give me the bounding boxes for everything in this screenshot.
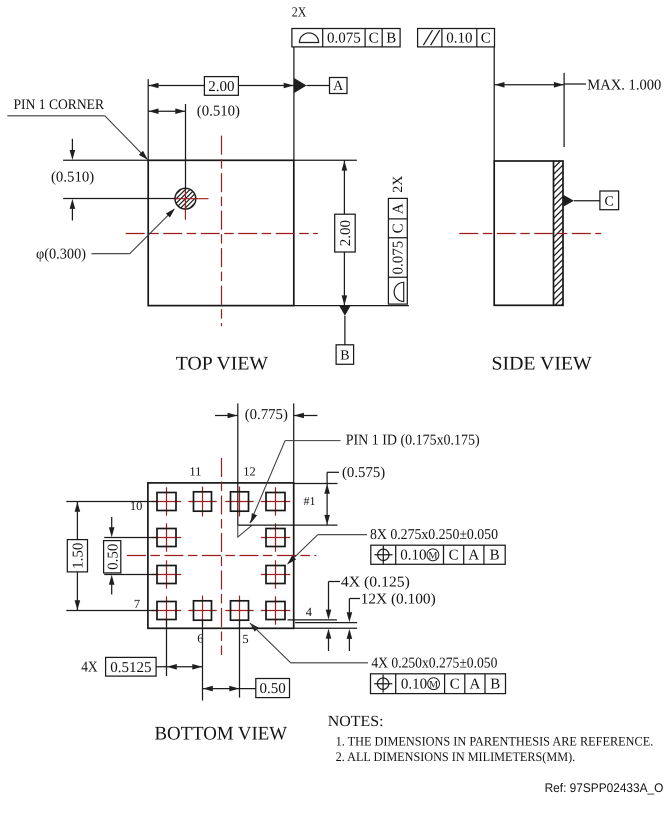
4X bottom pad size callout	[250, 623, 259, 632]
svg-text:11: 11	[189, 465, 201, 479]
svg-text:C: C	[449, 548, 459, 564]
datum B symbol	[339, 306, 350, 316]
svg-text:(0.775): (0.775)	[245, 407, 288, 423]
svg-text:0.50: 0.50	[105, 544, 121, 570]
svg-text:4X (0.125): 4X (0.125)	[341, 574, 410, 590]
svg-text:#1: #1	[304, 494, 316, 508]
svg-text:0.075: 0.075	[327, 31, 361, 47]
0.50 bottom dimension	[239, 620, 241, 697]
side view hatched strip	[551, 143, 566, 322]
position tolerance frame for 4X pads	[371, 674, 506, 694]
top view vertical centerline	[221, 136, 223, 327]
svg-text:0.075: 0.075	[391, 241, 407, 275]
pad at (202,610)	[188, 610, 216, 612]
svg-text:Ref: 97SPP02433A_O: Ref: 97SPP02433A_O	[545, 781, 664, 795]
extension line frame to package corner	[293, 47, 295, 160]
svg-text:B: B	[490, 677, 500, 693]
pin 1 marker hatched circle	[149, 186, 221, 212]
svg-text:0.50: 0.50	[260, 681, 286, 697]
position tolerance frame for 8X pads	[371, 545, 505, 564]
svg-text:NOTES:: NOTES:	[328, 713, 384, 730]
vertical 2.00 dimension	[294, 159, 357, 161]
pad at (166,502)	[152, 501, 181, 503]
PIN 1 CORNER leader	[7, 115, 105, 117]
extension line frame to side view corner	[493, 47, 495, 161]
svg-text:(0.575): (0.575)	[342, 465, 385, 481]
svg-text:B: B	[386, 31, 396, 47]
svg-text:C: C	[481, 31, 491, 47]
pad at (240,610)	[225, 610, 253, 612]
pad at (202,502)	[188, 501, 216, 503]
diameter 0.300 leader	[92, 253, 130, 255]
parallelism feature control frame	[418, 29, 495, 47]
datum C symbol	[563, 195, 574, 207]
pin 1 ID triangle	[238, 525, 252, 537]
bottom view vertical centerline	[221, 458, 223, 655]
top view horizontal centerline	[126, 233, 318, 235]
horizontal 2.00 dimension	[147, 79, 149, 160]
svg-text:2.00: 2.00	[208, 79, 234, 95]
svg-text:M: M	[429, 680, 438, 691]
svg-text:B: B	[340, 349, 349, 364]
rotated profile feature control frame	[388, 198, 407, 304]
svg-text:7: 7	[134, 597, 140, 611]
svg-text:(0.510): (0.510)	[51, 170, 94, 186]
svg-text:C: C	[369, 31, 379, 47]
bottom view horizontal centerline	[127, 555, 316, 557]
pad edge extension lines right	[288, 619, 337, 621]
svg-text:φ(0.300): φ(0.300)	[36, 246, 86, 262]
pin 1 marker red cross	[174, 198, 209, 200]
svg-text:2X: 2X	[391, 176, 406, 193]
(0.575) dimension	[294, 483, 338, 485]
top view package outline	[148, 160, 294, 305]
top (0.510) dimension	[148, 110, 185, 112]
svg-text:1. THE DIMENSIONS IN PARENTHE: 1. THE DIMENSIONS IN PARENTHESIS ARE REF…	[336, 734, 654, 749]
pad at (276,538)	[261, 537, 290, 539]
datum A symbol	[294, 78, 307, 93]
svg-text:TOP VIEW: TOP VIEW	[176, 353, 269, 374]
svg-text:4: 4	[306, 605, 313, 619]
svg-text:SIDE VIEW: SIDE VIEW	[492, 353, 593, 374]
side view body outline	[494, 161, 563, 305]
svg-text:A: A	[468, 548, 479, 564]
svg-text:2.00: 2.00	[338, 220, 354, 246]
svg-text:PIN 1 ID (0.175x0.175): PIN 1 ID (0.175x0.175)	[346, 433, 480, 449]
svg-text:(0.510): (0.510)	[197, 103, 240, 119]
pad at (166,610)	[152, 610, 181, 612]
svg-text:0.10: 0.10	[446, 31, 472, 47]
svg-text:5: 5	[242, 632, 248, 646]
bottom view package outline	[148, 483, 294, 628]
(0.775) dimension	[237, 403, 239, 525]
pad at (276,574)	[261, 574, 290, 576]
svg-text:4X: 4X	[81, 660, 98, 676]
up arrows below extension lines	[326, 629, 332, 639]
svg-text:B: B	[490, 548, 500, 564]
svg-text:2. ALL DIMENSIONS IN MILIMETER: 2. ALL DIMENSIONS IN MILIMETERS(MM).	[336, 749, 576, 764]
0.50 left dimension	[104, 537, 157, 539]
pad at (276,610)	[261, 610, 290, 612]
svg-text:MAX. 1.000: MAX. 1.000	[587, 77, 661, 93]
svg-text:12X (0.100): 12X (0.100)	[361, 591, 436, 607]
svg-text:A: A	[333, 79, 344, 94]
svg-text:A: A	[469, 677, 480, 693]
1.50 dimension	[66, 501, 156, 503]
side view centerline	[459, 233, 601, 235]
svg-text:0.5125: 0.5125	[110, 660, 151, 676]
svg-text:BOTTOM VIEW: BOTTOM VIEW	[155, 723, 288, 744]
pad at (166,538)	[152, 537, 181, 539]
profile feature control frame top	[292, 29, 400, 47]
svg-text:C: C	[605, 194, 614, 209]
svg-text:12: 12	[243, 465, 256, 479]
MAX. 1.000 dimension	[494, 84, 564, 86]
svg-text:1.50: 1.50	[70, 543, 86, 569]
pad at (276,502)	[261, 501, 290, 503]
svg-text:8X 0.275x0.250±0.050: 8X 0.275x0.250±0.050	[370, 527, 498, 543]
svg-text:0.10: 0.10	[401, 677, 427, 693]
svg-text:A: A	[391, 203, 407, 214]
left (0.510) dimension	[63, 159, 148, 161]
svg-text:0.10: 0.10	[400, 548, 426, 564]
svg-text:2X: 2X	[292, 6, 307, 21]
svg-text:PIN 1 CORNER: PIN 1 CORNER	[14, 97, 105, 113]
pad at (166,574)	[152, 574, 181, 576]
svg-text:M: M	[428, 551, 437, 562]
pad at (240,502)	[225, 501, 253, 503]
svg-text:C: C	[391, 223, 407, 233]
svg-text:4X 0.250x0.275±0.050: 4X 0.250x0.275±0.050	[371, 656, 497, 672]
svg-text:C: C	[450, 677, 460, 693]
